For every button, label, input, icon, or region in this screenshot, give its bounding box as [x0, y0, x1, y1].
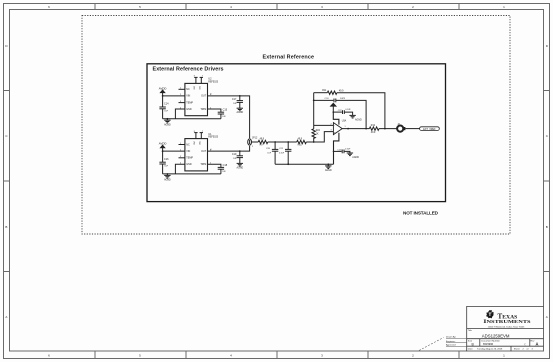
pin stub NC: [179, 88, 185, 90]
svg-text:AGND: AGND: [236, 111, 243, 114]
pin stub TEMP: [179, 102, 185, 104]
ground AGND C17: [236, 108, 243, 114]
svg-text:10PF: 10PF: [340, 98, 346, 100]
svg-text:R10: R10: [298, 145, 303, 147]
node feedback/C24 junction: [313, 100, 315, 102]
ground AGND V-: [347, 153, 360, 159]
wire ground rail 1: [163, 118, 221, 120]
external reference drivers box: [147, 64, 446, 202]
svg-text:TRIM: TRIM: [200, 163, 206, 166]
svg-text:AGND: AGND: [352, 156, 359, 159]
ground AGND rail2: [164, 174, 171, 182]
wire C24 loop right: [336, 100, 366, 128]
svg-text:8: 8: [194, 76, 195, 78]
svg-text:C14: C14: [164, 103, 169, 106]
node R24 bottom junction: [313, 141, 315, 143]
svg-text:GND: GND: [186, 163, 192, 166]
svg-text:R12: R12: [371, 125, 376, 127]
svg-text:0.1UF: 0.1UF: [279, 152, 285, 154]
capacitor C19: [232, 151, 243, 163]
svg-text:AGND: AGND: [164, 179, 171, 182]
svg-text:49.9: 49.9: [298, 138, 303, 140]
svg-text:A: A: [5, 315, 7, 319]
svg-text:C19: C19: [232, 153, 237, 156]
capacitor C16: [159, 151, 169, 174]
svg-text:AGND: AGND: [164, 123, 171, 126]
svg-text:1: 1: [345, 126, 346, 128]
svg-text:2: 2: [331, 123, 332, 125]
node output junction: [347, 128, 349, 130]
svg-text:-: -: [334, 125, 335, 128]
svg-text:Date:: Date:: [468, 347, 474, 350]
node rail2/GND junction: [167, 173, 169, 175]
wire C24 loop: [314, 99, 334, 101]
svg-text:C18: C18: [223, 164, 228, 167]
node OUT2/C19 junction: [239, 150, 241, 152]
capacitor C23: [337, 149, 351, 154]
capacitor C20: [266, 142, 278, 164]
svg-text:External Reference: External Reference: [263, 55, 315, 61]
wire R11 loop right: [337, 93, 385, 129]
svg-text:NOT INSTALLED: NOT INSTALLED: [403, 210, 439, 215]
node C24 loop junction: [365, 128, 367, 130]
capacitor C15: [218, 109, 228, 119]
svg-text:49.9: 49.9: [371, 132, 376, 134]
svg-text:0.1UF: 0.1UF: [345, 149, 351, 151]
svg-text:JP12: JP12: [252, 138, 258, 140]
wire ground rail 2: [163, 173, 221, 175]
svg-text:C17: C17: [232, 98, 237, 101]
resistor R10: [297, 138, 307, 146]
wire jumper to R9: [252, 141, 259, 143]
wire VIN: [163, 95, 185, 97]
title block texts: [468, 329, 539, 350]
svg-text:External Reference Drivers: External Reference Drivers: [153, 67, 224, 73]
ground AGND rail1: [164, 119, 171, 127]
wire GND2 pin drop: [175, 164, 185, 174]
svg-text:B: B: [546, 225, 548, 229]
pin stub TEMP: [179, 157, 185, 159]
ground AGND V+: [349, 115, 362, 121]
svg-text:Sheet: Sheet: [514, 347, 520, 350]
power AVDD (1): [159, 86, 167, 96]
svg-text:2: 2: [252, 146, 253, 148]
svg-text:3: 3: [331, 130, 332, 132]
wire VIN2: [163, 150, 185, 152]
svg-text:GND: GND: [186, 108, 192, 111]
node rail/C21 junction: [287, 163, 289, 165]
reference IC U1: [180, 131, 219, 171]
node V- bypass tee: [333, 151, 335, 153]
wire inverting input: [314, 124, 334, 126]
wire R9 to R10: [268, 141, 297, 143]
jumper JP12: [248, 138, 258, 148]
ground AGND C19: [236, 163, 243, 169]
svg-text:C16: C16: [164, 158, 169, 161]
power AVDD (2): [159, 142, 167, 152]
svg-text:U3A: U3A: [342, 119, 347, 122]
svg-text:OUT: OUT: [201, 150, 207, 153]
wire OUT2: [208, 146, 250, 151]
node VIN/C14 junction: [162, 95, 164, 97]
svg-text:6: 6: [211, 149, 212, 151]
power +VA arrow: [331, 103, 336, 112]
node R11 loop junction: [384, 128, 386, 130]
wire R10 to +input riser: [306, 132, 333, 142]
svg-text:NC: NC: [186, 88, 190, 91]
svg-text:C15: C15: [223, 109, 228, 112]
wire GND pin drop: [175, 109, 185, 119]
svg-text:AGND: AGND: [355, 118, 362, 121]
reference IC U2: [180, 76, 219, 116]
capacitor C22: [338, 109, 352, 114]
net flag EXT_VREF: [420, 127, 440, 131]
resistor R11: [322, 90, 344, 94]
wire feedback top (R11 loop): [314, 92, 328, 94]
svg-text:A: A: [546, 315, 548, 319]
svg-text:8: 8: [194, 131, 195, 133]
svg-text:A: A: [536, 342, 539, 347]
svg-text:B: B: [5, 225, 7, 229]
svg-text:Tuesday, August 26, 2008: Tuesday, August 26, 2008: [477, 347, 503, 350]
svg-text:0.1UF: 0.1UF: [345, 109, 351, 111]
svg-text:{: {: [525, 342, 526, 346]
svg-text:TEMP: TEMP: [186, 101, 193, 104]
capacitor C21: [279, 142, 291, 164]
svg-text:AGND: AGND: [236, 166, 243, 169]
wire J2 to net flag: [405, 128, 419, 130]
svg-text:OUT: OUT: [201, 95, 207, 98]
svg-text:AGND: AGND: [325, 169, 332, 172]
wire feedback riser: [313, 93, 315, 126]
svg-text:ADS1259EVM: ADS1259EVM: [482, 334, 510, 339]
svg-text:REF5025: REF5025: [208, 137, 218, 139]
node VIN2/C16 junction: [162, 150, 164, 152]
pin stub NC: [179, 144, 185, 146]
node C20 tap: [274, 141, 276, 143]
node rail/GND junction: [167, 118, 169, 120]
capacitor C24: [324, 98, 345, 102]
wire C22 to gnd: [344, 112, 352, 115]
wire TRIM2: [208, 164, 221, 167]
wire V+ bypass branch: [333, 111, 342, 113]
logo Texas Instruments: [483, 310, 530, 328]
svg-text:EXT_VREF: EXT_VREF: [423, 128, 436, 131]
svg-text:VIN: VIN: [186, 95, 190, 98]
svg-text:R11: R11: [322, 90, 327, 92]
svg-text:REF5025: REF5025: [208, 81, 218, 83]
svg-text:1K: 1K: [316, 133, 319, 135]
svg-text:6515996: 6515996: [483, 342, 494, 346]
connector J2: [397, 124, 405, 132]
wire V+ pin: [333, 112, 339, 125]
ground AGND mid rail: [325, 164, 332, 172]
capacitor C14: [159, 96, 169, 119]
wire TRIM: [208, 109, 221, 112]
svg-text:12500 TI Boulevard. Dallas, Te: 12500 TI Boulevard. Dallas, Texas 75243: [488, 327, 525, 329]
svg-text:7: 7: [202, 76, 203, 78]
capacitor C17: [232, 96, 243, 108]
node OUT1/C17 junction: [239, 95, 241, 97]
op-amp U3A: [331, 119, 347, 134]
wire V- bypass branch: [334, 150, 342, 152]
wire op-amp output: [342, 128, 369, 130]
resistor R12: [369, 125, 379, 134]
wire C23 to gnd: [344, 151, 350, 153]
node C21 tap: [287, 141, 289, 143]
svg-text:TRIM: TRIM: [200, 108, 206, 111]
svg-text:49.9: 49.9: [260, 138, 265, 140]
svg-text:R24: R24: [316, 130, 321, 132]
capacitor C18: [218, 164, 228, 174]
svg-text:TEMP: TEMP: [186, 157, 193, 160]
wire R12 to connector: [379, 128, 397, 130]
svg-text:7: 7: [202, 131, 203, 133]
node V+ tee: [333, 111, 335, 113]
resistor R9: [258, 138, 268, 146]
wire mid ground rail: [275, 163, 333, 165]
svg-text:VIN: VIN: [186, 150, 190, 153]
resistor R24 (vertical): [312, 125, 321, 142]
wire OUT1: [208, 96, 250, 138]
svg-text:6: 6: [211, 94, 212, 96]
svg-text:NC: NC: [186, 143, 190, 146]
approval rows left of title block: [446, 336, 456, 347]
wire V- pin: [334, 133, 339, 164]
leader line: [419, 338, 444, 351]
dashed not-installed region: [82, 16, 510, 235]
